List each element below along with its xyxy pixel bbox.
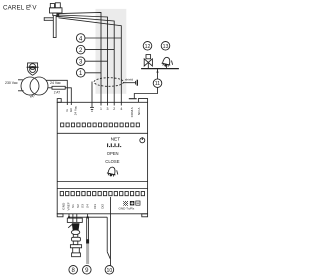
wire valve pin2 [59,16,115,105]
node 4 [76,34,121,43]
switch DI (10) [107,197,110,266]
svg-text:DI2: DI2 [101,204,105,209]
node 11 [153,79,162,88]
svg-text:12: 12 [145,44,151,50]
terminal row bottom [60,192,144,196]
module EVD outline [57,99,147,217]
node 10 [105,266,114,275]
junction B [87,216,89,218]
wire shield drain [91,82,93,108]
gray cable band [96,9,127,94]
node 2 [76,45,114,54]
wire G [46,80,67,105]
svg-text:CLOSE: CLOSE [105,159,119,164]
wire primary bottom [18,90,24,92]
wire valve pin3 [59,15,108,106]
terminal lug [129,98,137,100]
svg-text:4: 4 [120,107,122,111]
valve cable nub [56,13,59,17]
wire relay to COM A [134,87,157,98]
svg-text:OPEN: OPEN [107,151,119,156]
power icon [140,137,145,143]
relay rail [141,68,179,70]
network icons [123,201,140,206]
svg-text:VREF: VREF [66,202,70,210]
svg-text:S1: S1 [71,204,75,208]
junction A [68,216,70,218]
fuse 2AT [48,86,65,94]
svg-text:G0: G0 [69,108,73,112]
svg-text:1: 1 [100,107,102,111]
node 9 [83,266,92,275]
node 3 [76,57,107,66]
wire sensor gnd [68,214,70,218]
svg-text:V: V [32,5,37,12]
svg-text:COM A: COM A [130,106,134,117]
svg-text:S4: S4 [85,204,89,208]
svg-text:13: 13 [163,44,169,50]
svg-text:VA*: VA* [30,95,36,99]
svg-text:11: 11 [155,81,160,87]
pressure sensor P (8) [67,218,82,257]
transformer TR1 [21,77,48,99]
wire G0 [65,88,71,105]
svg-text:24 Vac: 24 Vac [50,81,61,85]
terminal row top [61,123,140,127]
svg-text:S2: S2 [76,204,80,208]
wire relay stub [157,69,159,79]
cable sheath ellipse [94,78,124,87]
wire sensor s1 [76,214,78,218]
alarm bell (13) [161,56,173,68]
node shield [124,77,138,85]
svg-text:GND Tx/Rx: GND Tx/Rx [119,206,135,210]
wire primary top [18,79,23,81]
svg-text:X: X [29,3,32,8]
svg-text:2: 2 [113,107,115,111]
svg-text:10: 10 [107,268,113,274]
valve E2V [44,3,62,38]
ground earth [90,107,94,111]
svg-text:2 AT: 2 AT [54,90,60,94]
svg-text:230 Vac: 230 Vac [5,81,18,85]
led bar [108,143,122,147]
svg-text:GND: GND [61,202,65,210]
svg-text:NET: NET [111,137,121,143]
wire valve pin4 [59,18,122,106]
node 1 [76,69,101,78]
svg-text:24 Vac: 24 Vac [74,105,78,115]
node 12 [143,42,152,51]
svg-text:shield: shield [125,77,133,81]
wire valve pin1 [59,12,102,105]
svg-text:3: 3 [107,107,109,111]
svg-text:NO A: NO A [137,107,141,115]
wire sensor vref [72,214,74,218]
temperature probe T (9) [86,214,89,264]
svg-text:DI1: DI1 [93,204,97,209]
node 13 [161,42,170,51]
solenoid valve (12) [144,55,152,69]
svg-text:CAREL E: CAREL E [3,5,30,12]
safety transformer badge [27,63,39,75]
wire di common [69,216,107,218]
node CAREL EXV label [3,3,37,11]
svg-text:S3: S3 [81,204,85,208]
node 8 [69,266,78,275]
display bell icon [106,166,117,177]
